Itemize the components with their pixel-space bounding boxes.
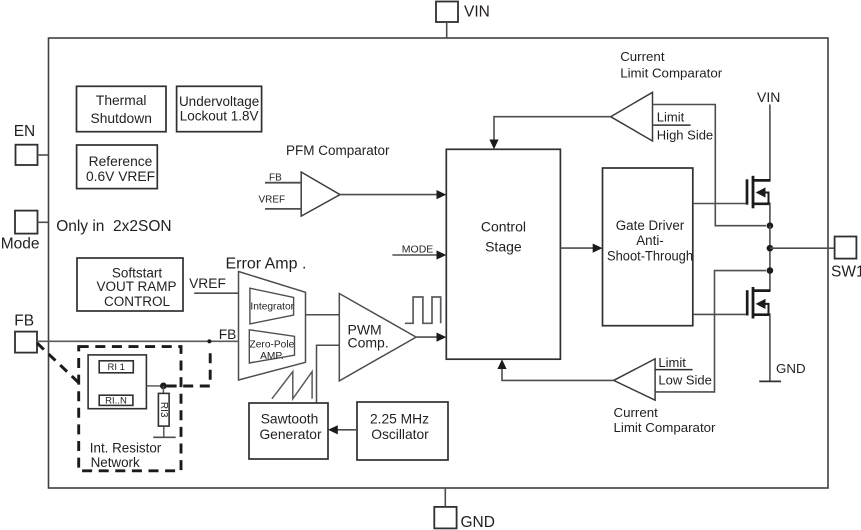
box Softstart VOUT RAMP CONTROL	[77, 258, 183, 311]
svg-text:GND: GND	[776, 361, 806, 376]
svg-text:Current: Current	[620, 49, 665, 64]
transistor Q2 low-side MOSFET	[693, 287, 771, 381]
svg-text:0.6V VREF: 0.6V VREF	[86, 169, 155, 184]
junction dot	[160, 383, 167, 390]
svg-text:CONTROL: CONTROL	[104, 294, 170, 309]
svg-text:Mode: Mode	[1, 235, 40, 252]
wire SW node vertical	[769, 226, 771, 291]
svg-text:Integrator: Integrator	[250, 302, 294, 313]
wire VREF to error amp	[194, 292, 238, 294]
fraction line	[653, 124, 690, 126]
wire oscillator to sawtooth generator	[336, 429, 357, 431]
svg-text:Network: Network	[91, 455, 140, 470]
svg-text:VIN: VIN	[464, 3, 490, 20]
svg-text:VREF: VREF	[259, 194, 286, 205]
svg-text:RI 1: RI 1	[107, 362, 124, 373]
svg-text:Limit: Limit	[658, 355, 686, 370]
arrowhead into control stage top	[489, 140, 498, 150]
wire junction to resistor RI3	[162, 386, 164, 394]
arrowhead into control stage (PFM)	[437, 190, 447, 199]
wire comparator output to control stage bottom	[502, 367, 614, 380]
svg-text:GND: GND	[461, 514, 495, 530]
svg-text:Shoot-Through: Shoot-Through	[607, 248, 693, 263]
pin SW1	[831, 237, 861, 281]
svg-text:FB: FB	[219, 327, 237, 342]
svg-text:Undervoltage: Undervoltage	[179, 94, 259, 109]
box Thermal Shutdown	[77, 86, 167, 131]
svg-text:MODE: MODE	[402, 243, 434, 255]
wire RI3 to ground	[163, 426, 165, 437]
wire to SW1 pin	[770, 247, 835, 249]
wire MODE input	[392, 254, 438, 256]
box Control Stage	[446, 149, 560, 359]
wire control stage to gate driver	[560, 247, 594, 249]
svg-text:EN: EN	[14, 123, 36, 140]
svg-text:Lockout 1.8V: Lockout 1.8V	[180, 108, 259, 123]
pin EN	[14, 123, 49, 165]
svg-text:VOUT RAMP: VOUT RAMP	[96, 279, 176, 294]
box 2.25 MHz Oscillator	[357, 402, 448, 460]
dashed FB tap wire	[167, 349, 211, 387]
svg-text:Low Side: Low Side	[658, 372, 711, 387]
svg-text:VREF: VREF	[189, 276, 226, 291]
pin GND (bottom)	[434, 488, 495, 530]
pin VIN (top)	[436, 2, 490, 39]
arrowhead into control stage bottom	[497, 359, 506, 369]
integrator block	[250, 288, 295, 324]
svg-text:Oscillator: Oscillator	[371, 427, 429, 442]
arrowhead into control stage (MODE)	[437, 250, 447, 259]
svg-text:AMP.: AMP.	[260, 351, 284, 362]
wire PWM output to control stage	[416, 336, 438, 338]
pin Mode	[1, 211, 49, 253]
box Undervoltage Lockout 1.8V	[177, 86, 262, 131]
svg-text:PFM Comparator: PFM Comparator	[286, 143, 390, 158]
wire PFM output to control stage	[340, 194, 438, 196]
resistor RI..N	[99, 395, 133, 406]
svg-text:Limit Comparator: Limit Comparator	[620, 65, 723, 80]
arrowhead into gate driver	[593, 244, 603, 253]
svg-text:FB: FB	[14, 312, 34, 329]
wire FB from pin to error amp	[37, 340, 239, 342]
IC boundary	[49, 38, 829, 488]
arrowhead into sawtooth generator	[328, 425, 338, 434]
svg-text:Generator: Generator	[259, 427, 322, 442]
svg-text:Error Amp .: Error Amp .	[226, 255, 307, 272]
PFM comparator	[301, 172, 340, 216]
svg-text:Comp.: Comp.	[348, 335, 389, 351]
wire FB input to PFM comparator	[265, 182, 301, 184]
svg-text:Limit Comparator: Limit Comparator	[614, 420, 717, 435]
dashed callout diagonal from FB pin	[37, 343, 79, 383]
resistor RI3	[158, 393, 169, 426]
svg-text:Zero-Pole: Zero-Pole	[250, 339, 295, 350]
svg-text:Only in 2x2SON: Only in 2x2SON	[56, 218, 171, 235]
box Sawtooth Generator	[249, 403, 328, 459]
svg-text:VIN: VIN	[757, 89, 780, 105]
svg-text:RI3: RI3	[158, 402, 169, 418]
svg-text:Shutdown: Shutdown	[91, 111, 152, 126]
svg-text:Thermal: Thermal	[96, 93, 147, 108]
svg-text:High Side: High Side	[657, 127, 713, 142]
ground bar of resistor network	[153, 436, 175, 438]
svg-text:Current: Current	[614, 405, 659, 420]
waveform sawtooth	[272, 372, 312, 399]
ground symbol	[759, 380, 781, 382]
error amp body	[239, 272, 306, 381]
svg-text:Gate Driver: Gate Driver	[616, 218, 685, 233]
fraction line	[655, 369, 693, 371]
transistor Q1 high-side MOSFET	[693, 105, 771, 226]
pin FB	[14, 312, 37, 352]
wire high side current sense	[653, 105, 767, 226]
wire low side current sense	[655, 271, 766, 392]
svg-text:SW1: SW1	[831, 263, 861, 280]
svg-text:Stage: Stage	[485, 238, 522, 254]
svg-text:Reference: Reference	[89, 154, 153, 169]
svg-text:Control: Control	[481, 219, 526, 235]
box Reference 0.6V VREF	[77, 145, 158, 189]
svg-text:Anti-: Anti-	[636, 233, 664, 248]
wire comparator output to control stage top	[494, 117, 611, 141]
svg-text:RI..N: RI..N	[105, 396, 127, 407]
wire sawtooth generator to PWM comp	[317, 345, 340, 403]
comparator high side	[611, 92, 653, 141]
waveform square pulses	[405, 297, 441, 323]
svg-text:Int. Resistor: Int. Resistor	[90, 440, 162, 455]
resistor network inner box	[88, 355, 146, 409]
junction low-side drain node	[767, 267, 774, 274]
svg-text:2.25 MHz: 2.25 MHz	[370, 412, 429, 427]
PWM comparator	[339, 294, 416, 381]
svg-text:FB: FB	[269, 173, 282, 184]
wire VREF input to PFM comparator	[265, 208, 301, 210]
box Gate Driver Anti-Shoot-Through	[603, 168, 694, 326]
resistor RI 1	[99, 361, 133, 373]
dashed box Int. Resistor Network	[79, 347, 181, 471]
comparator low side	[614, 359, 655, 400]
wire network to junction	[146, 385, 163, 387]
junction dot on FB wire	[207, 339, 211, 343]
svg-text:Limit: Limit	[657, 109, 685, 124]
wire integrator output to PWM comp	[306, 314, 340, 316]
arrowhead into control stage (PWM)	[437, 333, 447, 342]
zero-pole amp block	[249, 330, 294, 363]
svg-text:Sawtooth: Sawtooth	[261, 412, 319, 427]
junction high-side source node	[767, 222, 774, 229]
junction SW1 node	[767, 245, 774, 252]
